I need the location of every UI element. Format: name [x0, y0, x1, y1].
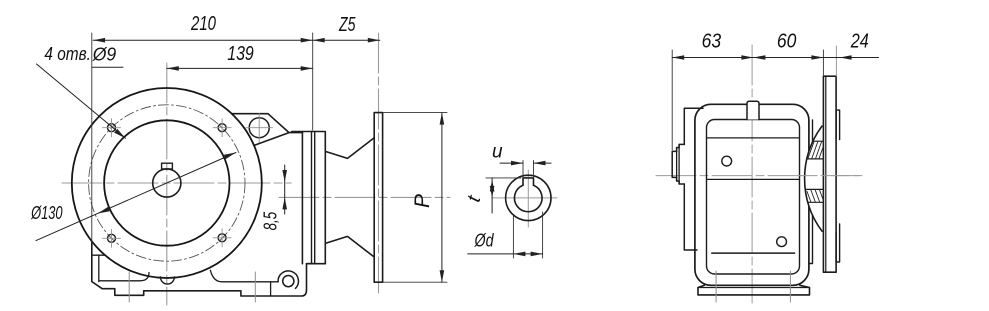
keyway slot — [523, 178, 534, 185]
leader 4 holes — [37, 64, 126, 138]
leader arrow — [114, 129, 125, 138]
base plate — [698, 285, 810, 295]
dim d extension right — [542, 212, 544, 258]
ring outline — [292, 132, 326, 264]
hole TR — [218, 124, 226, 132]
dim 63 extension left — [671, 50, 673, 150]
section outer circle — [506, 175, 551, 220]
panel bolt bottom — [777, 237, 787, 247]
bolt circle dash-dot — [89, 105, 245, 261]
plate1 inner line — [825, 76, 827, 272]
arrow d130 lower — [98, 207, 110, 214]
hole BR — [218, 234, 226, 242]
svg-text:P: P — [411, 194, 434, 208]
label underline — [92, 66, 123, 68]
dim u line left — [500, 162, 523, 164]
foot centerline left — [128, 272, 130, 302]
top lug outline — [232, 114, 303, 133]
side inner panel — [707, 120, 800, 275]
arrow 210 left — [93, 38, 105, 43]
body inner bottom line right — [210, 270, 278, 282]
gasket line 1 — [311, 132, 313, 264]
arrow P top — [440, 113, 445, 125]
foot lug outer arc — [278, 271, 298, 288]
section bore circle — [514, 185, 542, 212]
svg-text:Ø130: Ø130 — [30, 203, 62, 223]
svg-text:24: 24 — [850, 31, 869, 53]
motor flange plate1 — [823, 76, 836, 272]
arrow d130 upper — [224, 153, 236, 160]
bell cone bottom — [325, 236, 374, 256]
arrow P bottom — [440, 270, 445, 282]
top lug lower edge — [255, 133, 290, 146]
arrow u right — [534, 161, 546, 166]
dim u extension right — [533, 161, 535, 178]
outer flange circle — [72, 88, 262, 278]
svg-text:8,5: 8,5 — [261, 211, 281, 230]
base foot centerline right — [789, 271, 791, 302]
flange plate — [374, 113, 382, 283]
plate2 bottom stub — [836, 224, 840, 262]
hole TL ticks — [103, 119, 121, 137]
body left notch — [92, 255, 105, 281]
inner circle d130 — [104, 120, 229, 245]
gasket line 2 — [314, 132, 316, 264]
side centerline vertical — [751, 45, 753, 303]
svg-text:210: 210 — [190, 13, 216, 35]
arrow 75 left — [313, 38, 325, 43]
top lug hole — [249, 118, 269, 138]
key rect — [162, 163, 173, 169]
arrow 139 left — [167, 66, 179, 71]
centerline vertical main axis — [166, 63, 168, 305]
svg-text:Ød: Ød — [474, 231, 495, 251]
svg-text:Ø9: Ø9 — [92, 45, 116, 65]
worm axis overlay — [799, 175, 862, 177]
panel line 2 — [707, 178, 800, 180]
panel line 1 — [707, 137, 800, 139]
top lug hole crosshair — [246, 127, 273, 129]
arrow t bottom — [490, 186, 495, 198]
shaft circle — [153, 169, 181, 197]
base plate top line — [698, 287, 810, 289]
arrow 210 right — [301, 38, 313, 43]
bell arc — [805, 126, 822, 231]
plate2 top stub — [836, 110, 840, 139]
dim t extension top — [486, 177, 521, 179]
hatch region top — [807, 141, 824, 159]
dim 24 extension gray — [835, 46, 837, 76]
arrow 8.5 top — [282, 170, 287, 182]
bell arc white fill — [805, 126, 822, 231]
dim d extension left — [512, 216, 514, 258]
output face plate — [684, 108, 703, 250]
diagonal d130 line — [36, 153, 236, 241]
shaft cover — [677, 148, 680, 182]
arrow 60 left — [753, 55, 765, 60]
arrow 139 right — [301, 66, 313, 71]
dim line P — [441, 113, 443, 283]
svg-text:Z5: Z5 — [338, 14, 356, 36]
dim 210/139 extension right — [312, 33, 314, 130]
dim 8.5 line — [284, 165, 286, 214]
svg-text:60: 60 — [777, 31, 797, 53]
body left edge — [92, 241, 314, 296]
centerline flange axis — [279, 196, 450, 198]
ring bottom edge — [307, 263, 326, 265]
vent plug — [747, 101, 759, 119]
arrow t top — [490, 180, 495, 192]
bell cone top — [325, 138, 374, 158]
dim line 24 tail — [823, 57, 878, 59]
hole BL — [108, 234, 116, 242]
shaft stub verticals — [677, 144, 680, 184]
hole BL ticks — [103, 229, 121, 247]
arrow u left — [511, 161, 523, 166]
panel line 3 — [712, 252, 795, 254]
base foot centerline left — [715, 271, 717, 302]
shaft stub — [672, 151, 676, 177]
dim P extension bottom — [383, 281, 447, 283]
dim P extension top — [383, 112, 447, 114]
hole TR ticks — [213, 119, 231, 137]
bottom small boss — [160, 277, 174, 284]
hole BR ticks — [213, 229, 231, 247]
svg-text:4 отв.: 4 отв. — [44, 44, 91, 64]
dim 60 extension right — [822, 50, 824, 75]
dim line 210 — [93, 39, 313, 41]
centerline horizontal main axis — [62, 182, 291, 184]
dim d line — [468, 253, 543, 255]
right face strip — [809, 120, 813, 264]
svg-text:63: 63 — [702, 31, 722, 53]
shaft boss — [679, 144, 684, 184]
arrow 24 right — [840, 55, 852, 60]
foot centerline right — [254, 272, 256, 302]
foot lug boss edge — [270, 282, 272, 296]
side body outline — [695, 104, 809, 285]
arrow d right — [531, 252, 543, 257]
arrow d left — [513, 252, 525, 257]
body right edge — [301, 133, 303, 264]
hole TL — [108, 124, 116, 132]
arrow 8.5 bottom — [282, 197, 287, 209]
dim line 63-60 — [672, 57, 823, 59]
centerline bell vertical axis — [378, 33, 380, 293]
arrow 63 right — [741, 55, 753, 60]
panel bolt top — [722, 156, 732, 166]
section centerline horizontal — [492, 197, 557, 199]
side centerline horizontal worm axis — [656, 175, 862, 177]
svg-text:139: 139 — [227, 43, 254, 65]
dim line 75 — [313, 39, 380, 41]
body inner bottom line left — [99, 273, 149, 281]
arrow 75 right — [368, 38, 380, 43]
foot lug hole — [283, 276, 294, 287]
dim t line — [491, 178, 493, 213]
hatch region bottom — [805, 189, 823, 202]
arrow 63 left — [672, 55, 684, 60]
svg-text:u: u — [492, 142, 503, 163]
dim line 139 — [167, 67, 313, 69]
dim 210 extension left — [91, 33, 93, 243]
dim u line right — [534, 162, 552, 164]
dim u extension left — [522, 161, 524, 178]
section centerline vertical — [527, 170, 529, 227]
arrow 60 right — [811, 55, 823, 60]
